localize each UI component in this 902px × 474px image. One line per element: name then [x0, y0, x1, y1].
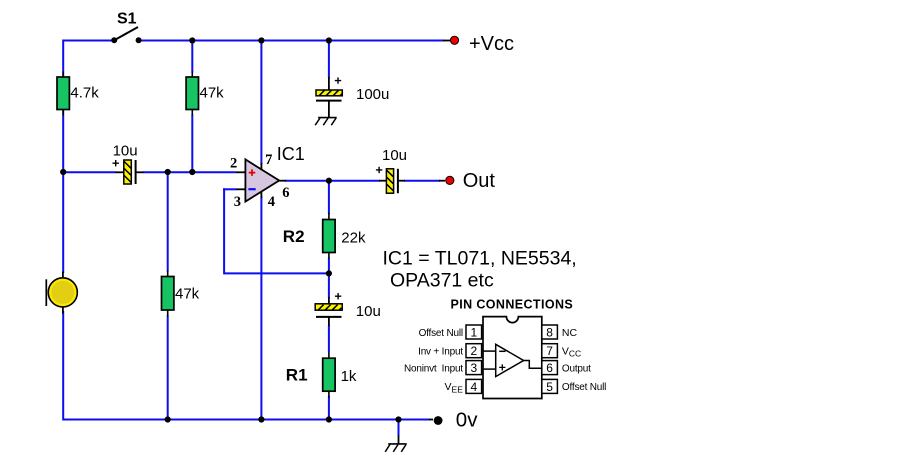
wire mid row y172 [63, 171, 116, 173]
svg-text:Offset Null: Offset Null [562, 382, 606, 393]
wire inverting input [223, 188, 236, 190]
svg-text:3: 3 [470, 361, 477, 375]
wire top rail right segment [139, 40, 444, 42]
ground for 100u [315, 118, 337, 126]
node junction left mid [60, 169, 66, 175]
pin box 6 [542, 361, 558, 375]
node rail 47k-bottom [165, 416, 171, 422]
svg-text:10u: 10u [113, 142, 138, 159]
wire output junction down to R2 [328, 181, 330, 214]
wire mic to bottom rail [62, 311, 64, 421]
wire left rail upper [62, 40, 64, 173]
wire pin7 branch [260, 41, 262, 165]
svg-text:OPA371 etc: OPA371 etc [390, 269, 494, 291]
pin2 lead [483, 350, 496, 352]
terminal Out [439, 176, 454, 184]
svg-text:PIN CONNECTIONS: PIN CONNECTIONS [450, 298, 573, 312]
svg-text:R2: R2 [283, 227, 305, 246]
svg-text:Out: Out [463, 170, 496, 192]
pin box 7 [542, 344, 558, 358]
wire out cap to terminal [404, 180, 440, 182]
svg-text:S1: S1 [117, 10, 137, 27]
svg-text:47k: 47k [200, 84, 225, 101]
pin6 lead [524, 361, 542, 369]
wire R1 to bottom rail [328, 396, 330, 420]
svg-text:IC1 = TL071, NE5534,: IC1 = TL071, NE5534, [383, 247, 577, 269]
svg-text:+Vcc: +Vcc [469, 33, 514, 55]
svg-text:5: 5 [546, 380, 553, 394]
wire top rail left segment [63, 40, 114, 42]
DIP-8 package body [483, 317, 542, 399]
svg-text:IC1: IC1 [277, 144, 305, 164]
node rail R1 [326, 416, 332, 422]
wire output junction to out cap [329, 180, 380, 182]
terminal +Vcc [443, 36, 459, 44]
svg-text:4: 4 [268, 194, 275, 210]
capacitor 10u input [113, 160, 144, 184]
wire 100u branch [328, 41, 330, 79]
pin box 5 [542, 379, 558, 393]
svg-text:1: 1 [470, 325, 477, 339]
capacitor 10u feedback [315, 293, 342, 326]
node junction top 100u [326, 37, 332, 43]
wire 47k bottom branch upper [167, 172, 169, 272]
wire cap to op-amp [143, 171, 237, 173]
wire feedback horizontal [224, 272, 329, 274]
svg-text:4: 4 [470, 380, 477, 394]
svg-text:1k: 1k [341, 368, 357, 385]
svg-text:Inv + Input: Inv + Input [418, 347, 463, 358]
wire bottom rail [63, 419, 430, 421]
svg-text:2: 2 [230, 155, 237, 171]
node junction mid 47k-bottom [165, 169, 171, 175]
wire feedback junction to 10u cap [328, 273, 330, 298]
svg-text:Output: Output [562, 363, 591, 374]
svg-text:0v: 0v [456, 408, 478, 431]
wire 47k top branch upper [191, 41, 193, 73]
inner op-amp triangle [496, 344, 524, 376]
svg-text:22k: 22k [341, 229, 366, 246]
ground at 0v rail [385, 436, 407, 452]
svg-text:2: 2 [470, 344, 477, 358]
wire left rail mid (junction to mic) [62, 172, 64, 273]
resistor 4.7k [57, 72, 69, 116]
resistor 47k top [186, 72, 198, 116]
svg-text:6: 6 [546, 361, 553, 375]
svg-text:R1: R1 [286, 366, 308, 385]
node rail ground [395, 416, 401, 422]
pin box 4 [466, 379, 482, 393]
node output junction [326, 178, 332, 184]
wire op-amp output [285, 180, 329, 182]
svg-text:3: 3 [234, 194, 241, 210]
svg-text:10u: 10u [382, 147, 407, 164]
wire ground stub at 0v rail [398, 420, 400, 437]
wire 10u cap to R1 [328, 325, 330, 353]
pin box 2 [466, 344, 482, 358]
pin box 3 [466, 361, 482, 375]
node junction top 47k [189, 37, 195, 43]
svg-text:8: 8 [546, 325, 553, 339]
microphone [46, 272, 77, 314]
node feedback junction [326, 270, 332, 276]
svg-text:7: 7 [546, 344, 553, 358]
op-amp IC1 [236, 159, 286, 201]
node junction top pin7 [258, 37, 264, 43]
resistor R1 1k [323, 353, 335, 398]
svg-text:4.7k: 4.7k [70, 84, 99, 101]
wire feedback vertical [223, 188, 225, 274]
svg-text:NC: NC [562, 327, 578, 339]
terminal 0v [429, 416, 443, 425]
svg-text:6: 6 [282, 185, 289, 201]
svg-text:Noninvt Input: Noninvt Input [404, 363, 463, 374]
svg-text:47k: 47k [175, 286, 200, 303]
wire R2 to feedback junction [328, 258, 330, 275]
node junction mid 47k-top [189, 169, 195, 175]
pin box 8 [542, 325, 558, 339]
pin3 lead [483, 368, 496, 370]
resistor 47k bottom [162, 271, 174, 317]
switch S1 [111, 27, 141, 43]
svg-text:10u: 10u [356, 303, 381, 320]
node rail pin4 [258, 416, 264, 422]
wire pin4 branch [260, 197, 262, 420]
svg-text:100u: 100u [356, 86, 389, 103]
pin box 1 [466, 325, 482, 339]
wire 47k bottom branch lower [167, 316, 169, 420]
svg-text:Offset Null: Offset Null [419, 328, 463, 339]
capacitor 10u output [376, 167, 405, 194]
wire 47k top branch lower [191, 115, 193, 173]
svg-text:7: 7 [265, 152, 272, 168]
capacitor 100u [316, 77, 342, 118]
resistor R2 22k [323, 213, 335, 259]
